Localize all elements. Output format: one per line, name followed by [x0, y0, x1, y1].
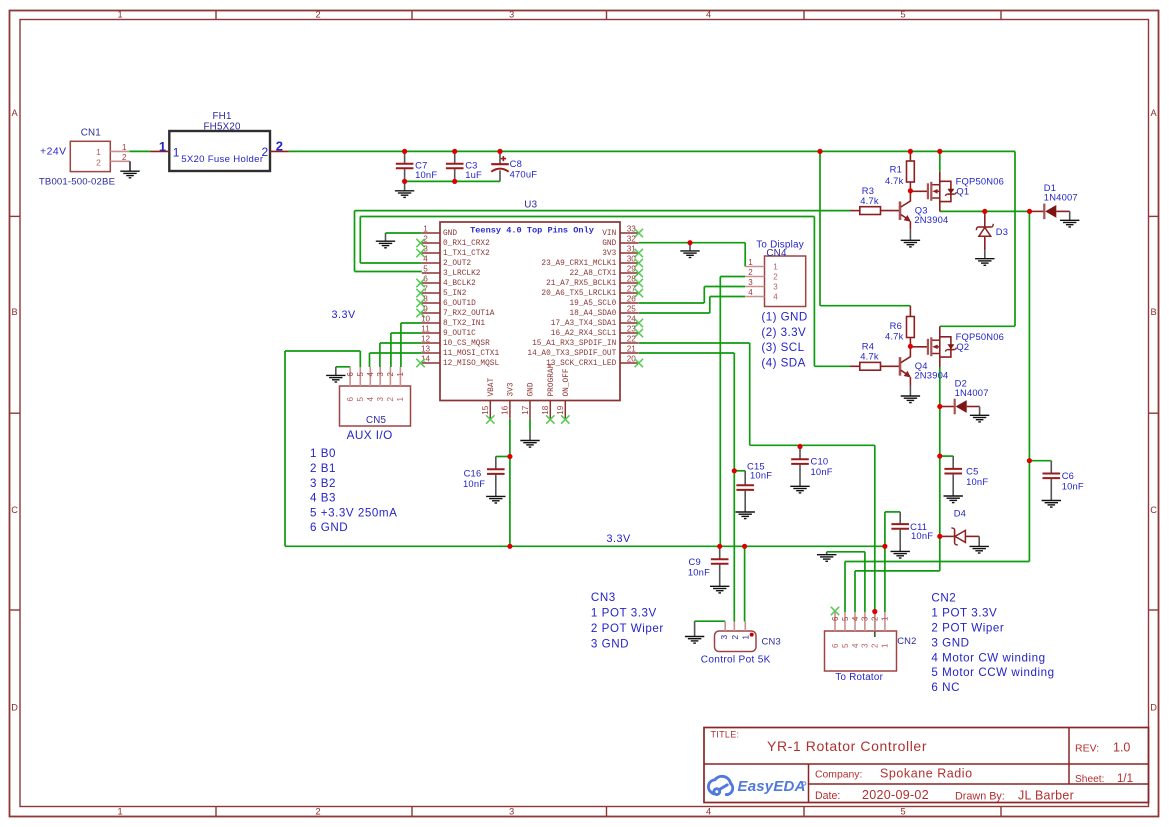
- svg-text:5: 5: [841, 643, 850, 648]
- svg-text:14_A0_TX3_SPDIF_OUT: 14_A0_TX3_SPDIF_OUT: [527, 350, 616, 358]
- svg-text:3: 3: [861, 643, 870, 648]
- svg-text:1 POT 3.3V: 1 POT 3.3V: [591, 606, 657, 619]
- svg-text:C8: C8: [510, 158, 522, 169]
- svg-text:4.7k: 4.7k: [860, 351, 879, 362]
- svg-text:13_SCK_CRX1_LED: 13_SCK_CRX1_LED: [546, 360, 617, 368]
- svg-text:4: 4: [706, 807, 711, 817]
- svg-text:15: 15: [481, 405, 490, 415]
- svg-text:CN2: CN2: [931, 592, 956, 605]
- svg-text:3 GND: 3 GND: [591, 637, 629, 650]
- svg-text:EasyEDA: EasyEDA: [738, 778, 806, 795]
- svg-text:12: 12: [421, 335, 431, 344]
- svg-text:1uF: 1uF: [465, 169, 482, 180]
- svg-text:C9: C9: [689, 556, 701, 567]
- svg-text:21: 21: [627, 345, 637, 354]
- svg-text:+24V: +24V: [40, 147, 67, 158]
- svg-text:Date:: Date:: [815, 790, 840, 802]
- svg-text:D4: D4: [954, 508, 966, 519]
- svg-text:AUX I/O: AUX I/O: [347, 428, 393, 442]
- svg-text:19_A5_SCL0: 19_A5_SCL0: [570, 300, 617, 308]
- svg-text:B: B: [12, 307, 18, 317]
- svg-text:12_MISO_MQSL: 12_MISO_MQSL: [443, 360, 499, 368]
- svg-text:Q1: Q1: [956, 186, 969, 197]
- svg-text:3.3V: 3.3V: [332, 309, 357, 321]
- svg-text:18_A4_SDA0: 18_A4_SDA0: [570, 310, 617, 318]
- svg-text:1: 1: [122, 143, 127, 152]
- svg-text:C16: C16: [464, 467, 482, 478]
- svg-text:5: 5: [901, 807, 906, 817]
- svg-text:2: 2: [315, 807, 320, 817]
- svg-text:1/1: 1/1: [1117, 773, 1133, 785]
- svg-text:C10: C10: [811, 456, 829, 467]
- svg-text:4.7k: 4.7k: [860, 195, 879, 206]
- svg-text:6: 6: [831, 617, 840, 621]
- svg-text:2 POT Wiper: 2 POT Wiper: [591, 622, 664, 635]
- svg-text:Q2: Q2: [956, 341, 969, 352]
- svg-text:FH1: FH1: [213, 111, 232, 122]
- svg-text:6: 6: [831, 643, 840, 648]
- svg-text:1: 1: [748, 258, 753, 267]
- svg-text:10nF: 10nF: [966, 476, 988, 487]
- svg-text:25: 25: [627, 305, 637, 314]
- svg-text:1: 1: [423, 225, 428, 234]
- svg-text:15_A1_RX3_SPDIF_IN: 15_A1_RX3_SPDIF_IN: [532, 340, 617, 348]
- svg-text:1: 1: [396, 372, 405, 376]
- svg-text:Teensy 4.0 Top Pins Only: Teensy 4.0 Top Pins Only: [470, 226, 594, 236]
- svg-text:22_A8_CTX1: 22_A8_CTX1: [570, 270, 617, 278]
- svg-text:6: 6: [346, 372, 355, 376]
- svg-text:5: 5: [356, 372, 365, 377]
- svg-text:1: 1: [173, 145, 180, 159]
- svg-text:Company:: Company:: [815, 770, 862, 781]
- svg-text:A: A: [1151, 108, 1158, 118]
- svg-text:CN2: CN2: [897, 635, 916, 646]
- svg-text:FH5X20: FH5X20: [204, 122, 241, 133]
- svg-text:2020-09-02: 2020-09-02: [862, 788, 929, 802]
- svg-text:(1) GND: (1) GND: [761, 310, 807, 323]
- svg-text:13: 13: [421, 345, 431, 354]
- svg-text:2: 2: [315, 10, 320, 20]
- svg-text:4.7k: 4.7k: [885, 330, 904, 341]
- svg-text:B: B: [1151, 307, 1157, 317]
- svg-text:CN1: CN1: [81, 127, 101, 138]
- svg-text:TITLE:: TITLE:: [711, 730, 740, 740]
- svg-text:4: 4: [366, 372, 375, 377]
- svg-text:GND: GND: [443, 230, 457, 238]
- svg-text:18: 18: [541, 405, 550, 415]
- svg-text:1N4007: 1N4007: [955, 387, 989, 398]
- svg-text:C: C: [11, 505, 18, 515]
- svg-text:CN4: CN4: [766, 248, 787, 259]
- svg-text:3: 3: [861, 617, 870, 621]
- svg-text:470uF: 470uF: [510, 169, 538, 180]
- svg-text:3_LRCLK2: 3_LRCLK2: [443, 270, 481, 278]
- svg-text:10nF: 10nF: [911, 530, 933, 541]
- svg-text:3: 3: [773, 282, 778, 291]
- svg-text:1: 1: [741, 635, 751, 640]
- svg-text:1: 1: [117, 10, 122, 20]
- svg-text:3.3V: 3.3V: [607, 533, 632, 545]
- svg-text:GND: GND: [602, 240, 616, 248]
- svg-text:10_CS_MQSR: 10_CS_MQSR: [443, 340, 490, 348]
- svg-text:Drawn By:: Drawn By:: [955, 791, 1005, 803]
- svg-text:1 POT 3.3V: 1 POT 3.3V: [931, 607, 997, 620]
- svg-text:5: 5: [841, 616, 850, 621]
- svg-text:CN3: CN3: [591, 591, 616, 604]
- svg-text:4: 4: [423, 255, 428, 264]
- svg-text:2: 2: [96, 157, 101, 167]
- svg-text:(2) 3.3V: (2) 3.3V: [761, 326, 806, 339]
- svg-text:Sheet:: Sheet:: [1075, 774, 1104, 785]
- svg-text:4: 4: [706, 10, 711, 20]
- svg-text:10nF: 10nF: [463, 478, 485, 489]
- svg-text:0_RX1_CRX2: 0_RX1_CRX2: [443, 240, 490, 248]
- svg-text:20_A6_TX5_LRCLK1: 20_A6_TX5_LRCLK1: [541, 290, 616, 298]
- svg-text:(4) SDA: (4) SDA: [761, 357, 805, 370]
- svg-text:10nF: 10nF: [750, 469, 772, 480]
- svg-text:5: 5: [901, 10, 906, 20]
- svg-text:2: 2: [773, 272, 778, 281]
- svg-text:1.0: 1.0: [1113, 741, 1130, 755]
- svg-text:2N3904: 2N3904: [914, 214, 948, 225]
- svg-text:4: 4: [851, 616, 860, 621]
- svg-text:23_A9_CRX1_MCLK1: 23_A9_CRX1_MCLK1: [541, 260, 616, 268]
- svg-text:A: A: [12, 108, 19, 118]
- svg-text:16_A2_RX4_SCL1: 16_A2_RX4_SCL1: [551, 330, 617, 338]
- svg-text:6 GND: 6 GND: [310, 521, 348, 534]
- svg-text:C6: C6: [1062, 470, 1074, 481]
- svg-text:Spokane Radio: Spokane Radio: [880, 767, 973, 781]
- svg-text:2: 2: [730, 635, 740, 640]
- svg-text:R1: R1: [890, 163, 902, 174]
- svg-text:(3) SCL: (3) SCL: [761, 341, 804, 354]
- svg-text:D: D: [1150, 703, 1157, 713]
- svg-text:1: 1: [881, 617, 890, 621]
- svg-text:1: 1: [117, 807, 122, 817]
- svg-text:32: 32: [627, 235, 637, 244]
- svg-text:3V3: 3V3: [602, 250, 616, 258]
- svg-text:3: 3: [509, 807, 514, 817]
- svg-text:2: 2: [748, 268, 753, 277]
- svg-text:1: 1: [881, 643, 890, 648]
- svg-text:2_OUT2: 2_OUT2: [443, 260, 471, 268]
- svg-text:D3: D3: [996, 226, 1008, 237]
- svg-text:3 B2: 3 B2: [310, 477, 336, 490]
- svg-text:2: 2: [262, 145, 269, 159]
- svg-text:1N4007: 1N4007: [1044, 191, 1078, 202]
- svg-text:REV:: REV:: [1075, 743, 1099, 755]
- svg-text:2: 2: [386, 397, 395, 402]
- svg-text:4 B3: 4 B3: [310, 492, 336, 505]
- svg-text:4: 4: [748, 288, 753, 297]
- svg-text:4_BCLK2: 4_BCLK2: [443, 280, 476, 288]
- svg-text:2 B1: 2 B1: [310, 462, 336, 475]
- svg-text:2N3904: 2N3904: [914, 370, 948, 381]
- svg-text:4 Motor CW winding: 4 Motor CW winding: [931, 651, 1045, 664]
- svg-text:YR-1 Rotator Controller: YR-1 Rotator Controller: [767, 738, 927, 754]
- svg-text:1 B0: 1 B0: [310, 447, 336, 460]
- svg-text:3V3: 3V3: [508, 382, 516, 396]
- svg-text:3: 3: [748, 278, 753, 287]
- svg-text:3: 3: [376, 372, 385, 376]
- svg-text:1: 1: [159, 139, 166, 154]
- svg-text:10nF: 10nF: [811, 466, 833, 477]
- svg-text:11: 11: [421, 325, 430, 334]
- svg-text:JL Barber: JL Barber: [1018, 789, 1074, 803]
- svg-text:10nF: 10nF: [415, 169, 437, 180]
- svg-text:5_IN2: 5_IN2: [443, 290, 467, 298]
- svg-text:2: 2: [122, 153, 127, 162]
- svg-text:4: 4: [851, 643, 860, 648]
- svg-text:CN3: CN3: [762, 635, 781, 646]
- svg-text:3: 3: [509, 10, 514, 20]
- svg-text:TB001-500-02BE: TB001-500-02BE: [39, 177, 115, 188]
- svg-text:10nF: 10nF: [688, 566, 710, 577]
- svg-text:1: 1: [396, 397, 405, 402]
- svg-text:4: 4: [366, 397, 375, 402]
- svg-text:6 NC: 6 NC: [931, 681, 960, 694]
- svg-text:21_A7_RX5_BCLK1: 21_A7_RX5_BCLK1: [546, 280, 617, 288]
- svg-text:4: 4: [773, 292, 778, 301]
- svg-text:C5: C5: [966, 465, 978, 476]
- svg-text:6_OUT1D: 6_OUT1D: [443, 300, 476, 308]
- svg-text:5 Motor CCW winding: 5 Motor CCW winding: [931, 666, 1054, 679]
- svg-text:ON_OFF: ON_OFF: [563, 368, 571, 396]
- svg-text:17: 17: [521, 405, 530, 415]
- svg-text:Control Pot 5K: Control Pot 5K: [701, 655, 771, 666]
- svg-text:2: 2: [871, 643, 880, 648]
- svg-text:CN5: CN5: [366, 415, 387, 426]
- svg-text:1: 1: [96, 147, 101, 157]
- svg-text:3: 3: [719, 635, 729, 640]
- svg-text:2: 2: [871, 617, 880, 621]
- svg-text:3 GND: 3 GND: [931, 636, 969, 649]
- svg-text:2 POT Wiper: 2 POT Wiper: [931, 622, 1004, 635]
- svg-text:D: D: [11, 703, 18, 713]
- svg-text:16: 16: [501, 405, 510, 415]
- svg-text:5: 5: [356, 397, 365, 402]
- svg-text:26: 26: [627, 295, 637, 304]
- svg-text:17_A3_TX4_SDA1: 17_A3_TX4_SDA1: [551, 320, 617, 328]
- svg-text:14: 14: [421, 355, 431, 364]
- svg-text:11_MOSI_CTX1: 11_MOSI_CTX1: [443, 350, 499, 358]
- svg-text:PROGRAM: PROGRAM: [548, 363, 556, 396]
- svg-text:5 +3.3V 250mA: 5 +3.3V 250mA: [310, 506, 397, 519]
- svg-text:22: 22: [627, 335, 637, 344]
- svg-text:1: 1: [773, 262, 778, 271]
- svg-text:2: 2: [386, 372, 395, 376]
- svg-text:U3: U3: [524, 200, 537, 211]
- svg-text:6: 6: [346, 397, 355, 402]
- svg-text:1_TX1_CTX2: 1_TX1_CTX2: [443, 250, 490, 258]
- svg-text:10: 10: [421, 315, 431, 324]
- svg-text:10nF: 10nF: [1062, 481, 1084, 492]
- svg-text:VIN: VIN: [602, 230, 616, 238]
- svg-text:7_RX2_OUT1A: 7_RX2_OUT1A: [443, 310, 495, 318]
- svg-text:To Rotator: To Rotator: [835, 672, 883, 683]
- svg-text:R6: R6: [890, 320, 902, 331]
- svg-text:19: 19: [556, 405, 565, 415]
- svg-text:4.7k: 4.7k: [885, 175, 904, 186]
- svg-text:2: 2: [276, 139, 283, 154]
- svg-text:VBAT: VBAT: [488, 377, 496, 396]
- svg-text:5X20 Fuse Holder: 5X20 Fuse Holder: [181, 154, 264, 165]
- svg-text:8_TX2_IN1: 8_TX2_IN1: [443, 320, 485, 328]
- svg-text:9_OUT1C: 9_OUT1C: [443, 330, 476, 338]
- svg-text:5: 5: [423, 265, 428, 274]
- svg-text:C: C: [1150, 505, 1157, 515]
- svg-text:3: 3: [376, 397, 385, 402]
- svg-text:GND: GND: [528, 382, 536, 396]
